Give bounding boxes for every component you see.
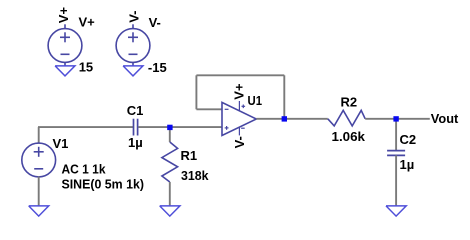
svg-text:AC 1 1k: AC 1 1k (62, 162, 107, 177)
wire node Vout to label (396, 118, 430, 120)
wire node A to op-amp + input (170, 126, 222, 128)
svg-text:V-: V- (232, 136, 247, 148)
svg-text:C1: C1 (127, 103, 144, 118)
wire C2 to ground (395, 155, 397, 205)
svg-text:V-: V- (126, 11, 141, 23)
svg-text:15: 15 (79, 60, 93, 75)
svg-text:1µ: 1µ (128, 135, 143, 150)
wire feedback right vertical to node B (283, 75, 285, 119)
node A junction (167, 125, 172, 130)
wire R2 to node Vout (365, 118, 396, 120)
wire feedback top horizontal (196, 74, 284, 76)
svg-text:-15: -15 (148, 60, 167, 75)
wire C1 to node A (138, 126, 170, 128)
svg-text:U1: U1 (248, 93, 263, 108)
ground (under R1) (160, 206, 180, 216)
svg-text:R1: R1 (181, 148, 198, 163)
wire R1 to ground (169, 182, 171, 206)
voltage source V+ supply (48, 24, 82, 66)
op-amp U1 V- power pin minus mark (241, 127, 245, 129)
wire V1 top lead (38, 127, 40, 144)
svg-text:V+: V+ (231, 83, 246, 100)
svg-text:V1: V1 (53, 136, 69, 151)
capacitor C1 (134, 119, 138, 136)
op-amp U1 V+ power pin stub (238, 101, 240, 111)
op-amp U1 V+ power pin plus mark (242, 105, 246, 109)
wire V1 to C1 (38, 126, 133, 128)
wire feedback: op-amp minus input segment (196, 108, 222, 110)
wire op-amp output to node B (256, 118, 284, 120)
wire node B to R2 (284, 118, 328, 120)
svg-text:V+: V+ (56, 7, 71, 24)
ground (under V+ supply) (55, 66, 75, 76)
svg-text:V-: V- (149, 15, 161, 30)
capacitor C2 (387, 151, 405, 156)
wire node Vout to C2 (395, 119, 397, 151)
ground (under V1) (29, 206, 49, 216)
op-amp U1 triangle (222, 102, 256, 135)
svg-text:Vout: Vout (431, 111, 459, 126)
svg-text:SINE(0 5m 1k): SINE(0 5m 1k) (62, 177, 145, 192)
resistor R1 (162, 142, 178, 182)
op-amp U1 inverting input mark (225, 108, 229, 110)
ground (under V- supply) (123, 66, 143, 76)
op-amp U1 V- power pin stub (238, 127, 240, 135)
svg-text:1µ: 1µ (400, 157, 415, 172)
node Vout junction (393, 116, 398, 121)
voltage source V- supply (116, 24, 150, 66)
wire feedback left vertical (195, 75, 197, 109)
op-amp U1 non-inverting input mark (225, 126, 229, 130)
svg-text:R2: R2 (341, 95, 358, 110)
svg-text:V+: V+ (79, 15, 96, 30)
resistor R2 (328, 110, 365, 126)
wire V1 bottom lead (38, 177, 40, 206)
svg-text:C2: C2 (400, 132, 417, 147)
svg-text:1.06k: 1.06k (332, 129, 366, 144)
node B junction (282, 116, 287, 121)
ground (under C2) (386, 206, 406, 216)
voltage source V1 (22, 143, 56, 177)
wire node A to R1 (169, 127, 171, 142)
svg-text:318k: 318k (181, 168, 209, 183)
